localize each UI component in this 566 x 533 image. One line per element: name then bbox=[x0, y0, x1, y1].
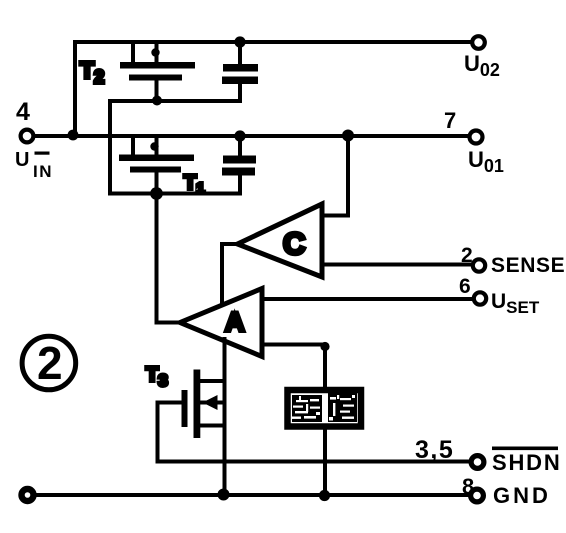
wire A to reference bbox=[262, 345, 325, 389]
capacitor of T2 bbox=[222, 42, 258, 101]
net label SHDN bbox=[492, 447, 562, 476]
svg-text:A: A bbox=[225, 307, 245, 337]
wire top rail bbox=[75, 42, 472, 136]
svg-text:SHDN: SHDN bbox=[492, 450, 562, 475]
svg-text:U: U bbox=[15, 149, 29, 171]
node reference GND junction bbox=[319, 490, 330, 501]
wire T1 bottom bbox=[110, 192, 240, 196]
wire C output bbox=[222, 244, 238, 305]
terminal SENSE pin 2 bbox=[473, 259, 485, 271]
svg-text:6: 6 bbox=[459, 275, 471, 298]
wire SENSE bbox=[322, 263, 472, 267]
terminal USET pin 6 bbox=[474, 292, 486, 304]
wire GND rail bbox=[28, 493, 470, 497]
wire A output bbox=[157, 321, 181, 325]
node T3 GND junction bbox=[218, 489, 230, 501]
node mid rail junction bbox=[234, 130, 245, 141]
capacitor of T1 bbox=[222, 136, 256, 194]
node T2 gate junction bbox=[152, 96, 162, 106]
wire reference to GND bbox=[323, 427, 327, 496]
node top rail junction bbox=[234, 36, 245, 47]
reference block label bbox=[292, 393, 357, 422]
figure number 2 bbox=[22, 336, 76, 390]
wire T1 gate to A bbox=[155, 194, 159, 323]
wire input rail bbox=[34, 134, 469, 138]
wire T3 gate down bbox=[156, 403, 160, 462]
svg-text:SENSE: SENSE bbox=[491, 254, 565, 277]
terminal GND left bbox=[22, 489, 34, 501]
svg-text:4: 4 bbox=[16, 98, 30, 126]
node input junction bbox=[68, 130, 79, 141]
terminal GND pin 8 bbox=[471, 489, 484, 502]
terminal U01 pin 7 bbox=[470, 131, 483, 144]
transistor T3 bbox=[158, 370, 225, 439]
wire left link bbox=[108, 101, 112, 194]
node U01 junction bbox=[342, 130, 354, 142]
wire USET bbox=[262, 297, 473, 301]
wire T3 drain to A bbox=[223, 339, 227, 495]
svg-text:T2: T2 bbox=[80, 57, 104, 87]
svg-text:IN: IN bbox=[33, 162, 53, 181]
svg-text:USET: USET bbox=[491, 290, 540, 317]
net label U IN bbox=[15, 149, 53, 181]
op-amp A bbox=[180, 289, 262, 357]
terminal U02 bbox=[472, 36, 485, 49]
terminal SHDN pins 3 5 bbox=[471, 456, 484, 469]
svg-text:7: 7 bbox=[444, 108, 456, 133]
svg-text:U02: U02 bbox=[464, 51, 500, 80]
svg-text:U01: U01 bbox=[468, 147, 504, 176]
terminal U IN pin 4 bbox=[21, 130, 34, 143]
svg-text:2: 2 bbox=[461, 244, 473, 267]
svg-text:GND: GND bbox=[493, 483, 551, 508]
wire T2 bottom bbox=[110, 99, 240, 103]
op-amp C bbox=[238, 204, 323, 277]
voltage reference block bbox=[288, 390, 362, 427]
wire feedback U01 bbox=[322, 136, 348, 216]
transistor T2 bbox=[120, 42, 195, 101]
transistor T1 bbox=[119, 136, 194, 194]
svg-text:T3: T3 bbox=[146, 364, 168, 390]
svg-text:2: 2 bbox=[37, 337, 63, 389]
wire SHDN bbox=[158, 460, 472, 464]
svg-text:8: 8 bbox=[462, 474, 474, 499]
node T1 gate junction bbox=[150, 187, 163, 200]
node corner bbox=[320, 342, 329, 351]
svg-text:C: C bbox=[283, 226, 305, 261]
svg-text:3,5: 3,5 bbox=[415, 436, 454, 464]
